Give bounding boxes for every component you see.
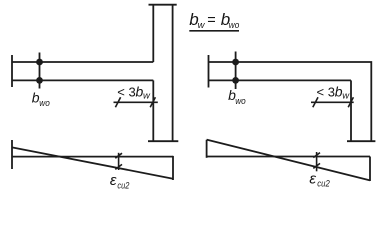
svg-text:ε: ε	[110, 172, 117, 189]
svg-text:cu2: cu2	[317, 179, 330, 189]
svg-text:w: w	[198, 20, 206, 31]
svg-text:cu2: cu2	[117, 181, 129, 191]
svg-text:wo: wo	[229, 20, 240, 31]
svg-text:wo: wo	[235, 96, 246, 107]
svg-text:< 3: < 3	[117, 84, 135, 99]
svg-text:wo: wo	[39, 98, 50, 109]
svg-text:w: w	[342, 91, 350, 102]
svg-text:< 3: < 3	[317, 84, 335, 99]
svg-text:w: w	[143, 91, 151, 102]
svg-text:=: =	[207, 13, 215, 29]
svg-text:ε: ε	[309, 171, 316, 188]
